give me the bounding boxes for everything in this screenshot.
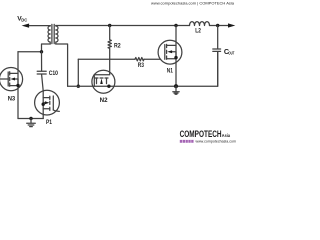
wire N1 source down	[175, 64, 177, 86]
svg-text:C10: C10	[49, 71, 59, 77]
node junction drop/bottom rail	[77, 85, 80, 88]
svg-text:R3: R3	[138, 63, 145, 69]
ground left	[27, 119, 36, 127]
inductor L2	[190, 22, 210, 26]
capacitor COUT	[217, 26, 219, 49]
svg-text:N2: N2	[100, 98, 109, 104]
node junction A	[40, 50, 43, 53]
wire P1 source to bottom rail	[42, 115, 44, 119]
wire bottom left rail	[18, 118, 43, 120]
svg-text:L2: L2	[195, 28, 201, 34]
wire bottom mid rail	[68, 52, 218, 86]
transformer T1 primary winding	[48, 26, 50, 44]
wire top rail	[56, 25, 190, 27]
svg-text:www.compotechasia.com | COMPOT: www.compotechasia.com | COMPOTECH Asia	[151, 2, 234, 6]
transistor N3	[0, 52, 23, 119]
transformer T1 core	[52, 24, 54, 43]
svg-text:R2: R2	[114, 43, 121, 49]
node junction ground left	[29, 117, 32, 120]
svg-text:www.compotechasia.com: www.compotechasia.com	[196, 140, 237, 144]
ground right	[173, 86, 179, 94]
node junction COUT/top	[216, 24, 219, 27]
node junction N1 drain/top	[174, 24, 177, 27]
wire L2 to output	[210, 25, 229, 27]
svg-text:DC: DC	[21, 18, 27, 23]
wire VDC input	[29, 25, 51, 27]
transistor N1	[158, 40, 182, 64]
wire R3 to N1 gate	[144, 58, 161, 60]
logo COMPOTECH Asia	[180, 129, 237, 144]
svg-text:COMPOTECH: COMPOTECH	[180, 129, 222, 139]
svg-text:N1: N1	[167, 68, 174, 74]
transistor N2	[92, 59, 115, 93]
svg-text:N3: N3	[8, 96, 16, 102]
node junction R2/top	[108, 24, 111, 27]
wire node A rail	[18, 51, 42, 53]
capacitor C10	[41, 52, 43, 71]
wire primary bottom to node A	[42, 44, 51, 52]
wire mid rail drop	[77, 59, 79, 86]
watermark top right	[151, 2, 234, 6]
wire N1 drain up	[175, 26, 177, 41]
wire secondary bottom drop	[56, 44, 68, 86]
node VDC label	[17, 15, 27, 22]
svg-text:Asia: Asia	[222, 133, 231, 138]
svg-text:P1: P1	[46, 120, 53, 126]
resistor R2	[108, 26, 111, 60]
arrow output (points right)	[228, 23, 235, 27]
node junction N1 source/bottom rail	[174, 84, 178, 88]
wire mid rail left segment	[78, 58, 135, 60]
transformer T1 secondary winding	[56, 26, 58, 45]
svg-text:OUT: OUT	[228, 50, 234, 55]
resistor R3	[135, 58, 144, 61]
arrow VDC (points left)	[22, 24, 30, 28]
transistor P1	[35, 90, 60, 115]
